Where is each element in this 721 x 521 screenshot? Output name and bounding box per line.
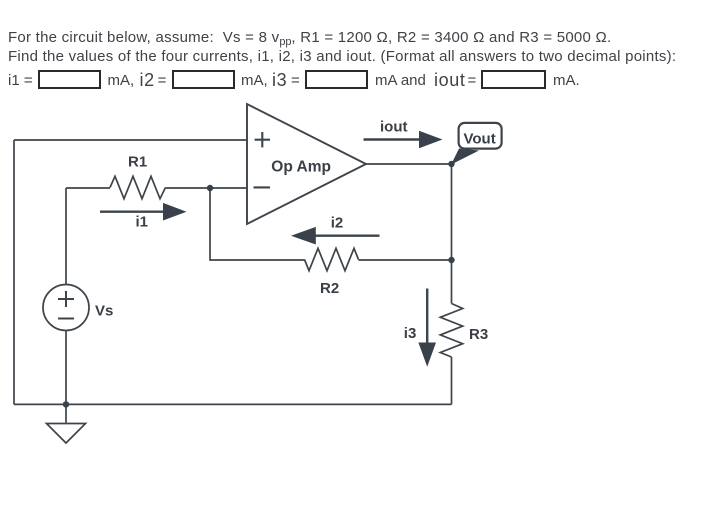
svg-text:i3: i3 bbox=[404, 325, 417, 342]
svg-text:Vout: Vout bbox=[464, 131, 496, 148]
svg-text:R1: R1 bbox=[128, 153, 147, 170]
svg-text:R2: R2 bbox=[320, 280, 339, 297]
svg-text:i2: i2 bbox=[331, 215, 344, 232]
svg-text:Vs: Vs bbox=[95, 303, 113, 320]
svg-text:i1: i1 bbox=[136, 214, 149, 231]
svg-text:iout: iout bbox=[380, 118, 408, 135]
svg-text:R3: R3 bbox=[469, 326, 488, 343]
svg-text:Op Amp: Op Amp bbox=[271, 159, 331, 176]
